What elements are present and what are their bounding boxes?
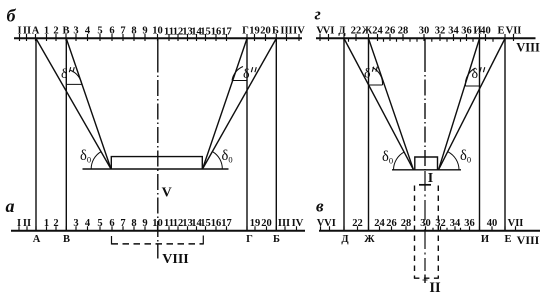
svg-text:40: 40 (487, 218, 498, 229)
svg-text:Е: Е (504, 234, 511, 245)
angle arc δ0 right (213, 152, 223, 169)
diagonal from Ж (369, 39, 414, 170)
svg-text:А: А (33, 234, 41, 245)
svg-text:Ж: Ж (362, 26, 373, 37)
svg-text:δ: δ (472, 67, 479, 82)
svg-text:I: I (17, 26, 21, 37)
svg-text:г: г (315, 4, 321, 23)
center axis line (left diagram) (157, 38, 159, 258)
svg-text:1: 1 (44, 26, 49, 37)
top ruler minor ticks (г) (349, 39, 494, 42)
svg-text:4: 4 (85, 218, 91, 229)
svg-text:8: 8 (131, 26, 136, 37)
svg-text:7: 7 (120, 218, 125, 229)
svg-text:26: 26 (385, 26, 396, 37)
label VIII (left diagram) (162, 252, 188, 267)
svg-text:VI: VI (323, 26, 335, 37)
label δ'' at И (472, 67, 485, 82)
vertical line A (35, 38, 37, 230)
bottom ruler line (а) (11, 230, 305, 232)
svg-text:Ж: Ж (364, 234, 375, 245)
label δ'' at Г (243, 67, 256, 82)
svg-text:30: 30 (419, 26, 430, 37)
svg-text:II: II (429, 280, 441, 296)
figure label в (316, 197, 324, 216)
small rectangle (right diagram) (415, 157, 438, 170)
angle mark δ'' at Ж (369, 68, 383, 86)
diagonal from И (439, 39, 480, 170)
svg-text:в: в (316, 197, 324, 216)
svg-text:δ: δ (243, 67, 250, 82)
svg-text:28: 28 (401, 218, 412, 229)
svg-text:VII: VII (508, 218, 524, 229)
label δ'' at Ж (364, 67, 377, 82)
top ruler ticks (б) (20, 34, 300, 41)
label δ0 right-diagram right (460, 148, 471, 165)
top ruler labels (г) (316, 26, 521, 37)
bottom ruler letters (а) (33, 234, 280, 245)
svg-text:Д: Д (338, 26, 346, 37)
top ruler labels (б) (17, 26, 305, 38)
svg-text:15: 15 (200, 218, 211, 229)
label I below baseline (right diagram) (428, 171, 433, 186)
svg-text:17: 17 (221, 218, 232, 229)
svg-text:VIII: VIII (516, 40, 540, 54)
top ruler ticks (г) (320, 34, 514, 41)
svg-text:Г: Г (242, 26, 249, 37)
top ruler line (г) (316, 37, 536, 39)
baseline (left diagram) (83, 168, 229, 170)
svg-text:20: 20 (260, 26, 271, 37)
svg-text:I: I (17, 218, 21, 229)
svg-text:VIII: VIII (162, 252, 188, 267)
svg-text:5: 5 (97, 218, 102, 229)
label VIII below top ruler (г) (516, 40, 540, 54)
platform rectangle V (111, 157, 202, 169)
svg-text:δ0: δ0 (460, 148, 471, 165)
svg-text:1: 1 (44, 218, 49, 229)
figure label а (6, 196, 15, 216)
cap bar on center line (419, 184, 431, 186)
svg-text:10: 10 (152, 26, 163, 37)
svg-text:δ0: δ0 (382, 149, 393, 166)
svg-text:δ0: δ0 (222, 148, 233, 165)
bottom ruler letters (в) (341, 233, 539, 247)
svg-text:6: 6 (109, 218, 114, 229)
diagonal from A (36, 39, 111, 170)
svg-text:34: 34 (448, 26, 459, 37)
svg-text:VII: VII (506, 26, 522, 37)
svg-text:а: а (6, 196, 15, 216)
svg-text:δ: δ (364, 67, 371, 82)
vertical line Г (246, 38, 248, 230)
angle mark δ'' at И (465, 68, 479, 86)
svg-text:II: II (23, 218, 31, 229)
svg-text:8: 8 (131, 218, 136, 229)
vertical line B (65, 38, 67, 230)
bottom ruler minor ticks (в) (433, 228, 461, 231)
angle mark δ'' at B (66, 70, 82, 84)
angle arc δ0 right-diagram right (448, 152, 459, 170)
angle mark δ'' at Г (232, 67, 247, 81)
top ruler line (б) (14, 37, 302, 39)
svg-text:9: 9 (142, 218, 147, 229)
label δ0 right-diagram left (382, 149, 393, 166)
svg-text:III: III (280, 26, 292, 37)
svg-text:28: 28 (398, 26, 409, 37)
svg-text:6: 6 (109, 26, 114, 37)
svg-text:Б: Б (272, 26, 279, 37)
svg-text:15: 15 (200, 27, 211, 38)
label δ'' at B (61, 67, 74, 82)
svg-text:3: 3 (73, 26, 78, 37)
svg-text:И: И (481, 234, 489, 245)
label δ0 right (222, 148, 233, 165)
vertical line Ж (368, 38, 370, 230)
baseline (right diagram) (392, 169, 461, 171)
svg-text:δ0: δ0 (80, 148, 91, 165)
svg-text:4: 4 (85, 26, 91, 37)
svg-text:II: II (23, 26, 31, 37)
svg-text:36: 36 (464, 218, 475, 229)
svg-text:В: В (62, 26, 69, 37)
center axis line (right diagram) (423, 38, 428, 283)
diagonal from Е (439, 39, 506, 170)
angle arc δ0 left (91, 152, 101, 169)
svg-text:32: 32 (435, 218, 446, 229)
svg-text:Г: Г (246, 234, 253, 245)
svg-text:VIII: VIII (517, 233, 540, 247)
svg-text:б: б (7, 5, 17, 25)
svg-text:V: V (162, 186, 172, 201)
bottom ruler ticks (в) (321, 226, 516, 231)
svg-text:17: 17 (221, 27, 232, 38)
svg-text:19: 19 (249, 26, 260, 37)
dashed box (right diagram) (414, 186, 439, 279)
svg-text:19: 19 (250, 218, 261, 229)
svg-text:32: 32 (435, 26, 446, 37)
label II (right diagram) (429, 280, 441, 296)
svg-text:2: 2 (53, 218, 58, 229)
svg-text:IV: IV (293, 26, 305, 37)
bottom ruler numbers (а) (17, 218, 304, 229)
figure label г (315, 4, 321, 23)
svg-text:16: 16 (211, 218, 222, 229)
svg-text:9: 9 (142, 26, 147, 37)
svg-text:36: 36 (461, 26, 472, 37)
svg-text:IV: IV (292, 218, 304, 229)
svg-text:22: 22 (351, 26, 362, 37)
vertical line Д (343, 38, 345, 230)
diagonal from B (66, 39, 111, 170)
svg-text:22: 22 (352, 218, 363, 229)
label δ0 left (80, 148, 91, 165)
bottom ruler ticks (а) (19, 226, 297, 231)
svg-text:20: 20 (261, 218, 272, 229)
svg-text:26: 26 (386, 218, 397, 229)
vertical line Е (504, 38, 506, 230)
svg-text:III: III (278, 218, 290, 229)
projection bracket (dashed) below ruler а (112, 236, 204, 245)
svg-text:Д: Д (341, 234, 349, 245)
angle arc δ0 right-diagram left (394, 152, 405, 170)
svg-text:7: 7 (120, 26, 125, 37)
svg-text:5: 5 (97, 26, 102, 37)
svg-text:24: 24 (374, 218, 385, 229)
diagonal from Г (203, 39, 248, 170)
svg-text:VI: VI (324, 218, 336, 229)
label V (162, 186, 172, 201)
diagonal from Б (203, 39, 277, 170)
svg-text:3: 3 (73, 218, 78, 229)
svg-text:I: I (428, 171, 433, 186)
svg-text:δ: δ (61, 67, 68, 82)
diagonal from Д (344, 39, 414, 170)
svg-text:24: 24 (372, 26, 383, 37)
svg-text:Е: Е (497, 26, 504, 37)
vertical line Б (275, 38, 277, 230)
svg-text:А: А (32, 26, 40, 37)
svg-text:2: 2 (53, 26, 58, 37)
svg-text:В: В (63, 234, 70, 245)
vertical line И (479, 38, 481, 230)
svg-text:16: 16 (211, 27, 222, 38)
svg-text:40: 40 (480, 26, 491, 37)
svg-text:Б: Б (273, 234, 280, 245)
bottom ruler line (в) (319, 230, 540, 232)
figure label б (7, 5, 17, 25)
svg-text:34: 34 (450, 218, 461, 229)
bottom ruler numbers (в) (317, 218, 524, 229)
